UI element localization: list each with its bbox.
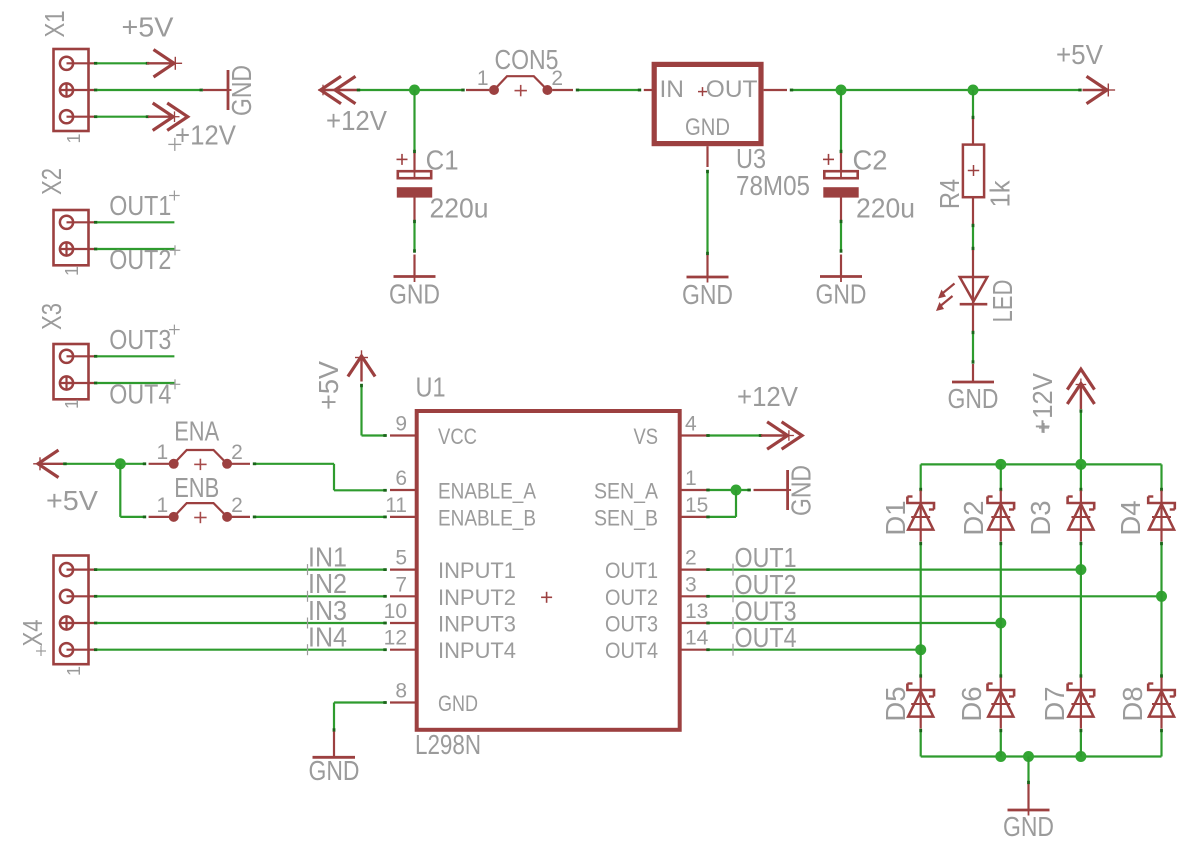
svg-text:2: 2 [231, 441, 243, 464]
svg-text:1: 1 [64, 666, 84, 676]
svg-text:+5V: +5V [46, 485, 99, 516]
svg-text:D4: D4 [1115, 500, 1146, 535]
svg-text:GND: GND [389, 279, 440, 310]
svg-text:INPUT3: INPUT3 [438, 612, 516, 637]
svg-text:C2: C2 [853, 145, 888, 176]
svg-text:GND: GND [786, 465, 817, 516]
svg-text:GND: GND [682, 279, 733, 310]
svg-text:OUT1: OUT1 [109, 190, 171, 221]
svg-text:OUT: OUT [706, 76, 758, 103]
svg-text:OUT4: OUT4 [605, 638, 658, 663]
svg-text:IN: IN [660, 76, 685, 103]
svg-text:GND: GND [1003, 811, 1054, 842]
svg-text:OUT4: OUT4 [735, 622, 797, 653]
svg-text:C1: C1 [426, 145, 459, 176]
svg-text:U1: U1 [416, 372, 446, 403]
svg-text:X3: X3 [36, 303, 67, 330]
svg-text:11: 11 [385, 494, 407, 517]
svg-text:3: 3 [685, 573, 697, 596]
svg-text:1: 1 [685, 467, 697, 490]
svg-text:OUT2: OUT2 [605, 585, 658, 610]
svg-text:+12V: +12V [737, 381, 799, 412]
svg-text:1: 1 [157, 441, 169, 464]
svg-text:SEN_B: SEN_B [594, 505, 658, 530]
svg-text:D7: D7 [1039, 686, 1070, 721]
svg-text:GND: GND [309, 755, 360, 786]
svg-text:D8: D8 [1117, 686, 1148, 721]
svg-text:D6: D6 [956, 686, 987, 721]
svg-text:X1: X1 [39, 11, 70, 38]
svg-text:13: 13 [685, 600, 708, 623]
svg-text:5: 5 [395, 547, 407, 570]
svg-text:X4: X4 [17, 620, 48, 647]
svg-text:D2: D2 [958, 500, 989, 535]
svg-text:GND: GND [948, 383, 999, 414]
svg-text:D3: D3 [1025, 500, 1056, 535]
svg-text:ENABLE_B: ENABLE_B [438, 505, 536, 530]
svg-text:GND: GND [226, 65, 257, 116]
svg-text:ENABLE_A: ENABLE_A [438, 479, 536, 504]
svg-text:D1: D1 [880, 500, 911, 535]
svg-text:INPUT2: INPUT2 [438, 585, 516, 610]
svg-text:4: 4 [685, 413, 697, 436]
svg-text:220u: 220u [430, 193, 489, 224]
svg-text:+12V: +12V [326, 105, 388, 136]
svg-text:L298N: L298N [415, 729, 481, 760]
svg-text:+12V: +12V [175, 119, 237, 150]
svg-text:15: 15 [685, 494, 708, 517]
svg-text:D5: D5 [880, 686, 911, 721]
svg-text:INPUT4: INPUT4 [438, 638, 516, 663]
svg-text:GND: GND [438, 691, 478, 716]
svg-text:1: 1 [62, 266, 82, 276]
svg-text:9: 9 [395, 413, 407, 436]
svg-text:8: 8 [395, 680, 407, 703]
svg-text:2: 2 [231, 494, 243, 517]
svg-text:GND: GND [816, 279, 867, 310]
svg-text:IN4: IN4 [308, 622, 347, 653]
svg-text:ENA: ENA [174, 416, 220, 447]
svg-text:6: 6 [395, 467, 407, 490]
svg-text:+5V: +5V [1056, 39, 1104, 70]
svg-text:ENB: ENB [174, 472, 219, 503]
svg-text:LED: LED [987, 280, 1018, 323]
svg-text:GND: GND [685, 114, 730, 141]
svg-text:+5V: +5V [122, 12, 175, 43]
svg-text:R4: R4 [934, 179, 965, 209]
svg-text:X2: X2 [36, 168, 67, 195]
svg-text:14: 14 [685, 627, 709, 650]
svg-text:INPUT1: INPUT1 [438, 558, 516, 583]
svg-text:VCC: VCC [438, 424, 477, 449]
svg-text:OUT3: OUT3 [605, 612, 658, 637]
svg-text:1: 1 [477, 67, 489, 90]
svg-text:OUT4: OUT4 [109, 378, 171, 409]
svg-text:OUT2: OUT2 [109, 244, 171, 275]
svg-text:VS: VS [634, 424, 659, 449]
svg-text:1: 1 [157, 494, 169, 517]
svg-text:1k: 1k [985, 180, 1016, 207]
svg-text:+5V: +5V [313, 360, 344, 410]
svg-text:1: 1 [64, 133, 84, 143]
svg-text:7: 7 [395, 573, 407, 596]
svg-text:SEN_A: SEN_A [594, 479, 658, 504]
svg-text:12: 12 [384, 627, 407, 650]
svg-text:220u: 220u [856, 193, 915, 224]
svg-text:+12V: +12V [1027, 372, 1058, 434]
svg-text:10: 10 [384, 600, 407, 623]
svg-text:OUT3: OUT3 [109, 324, 171, 355]
svg-text:2: 2 [685, 547, 697, 570]
svg-text:78M05: 78M05 [736, 170, 810, 201]
svg-text:CON5: CON5 [495, 44, 559, 75]
svg-text:1: 1 [62, 399, 82, 409]
svg-text:OUT1: OUT1 [605, 558, 658, 583]
